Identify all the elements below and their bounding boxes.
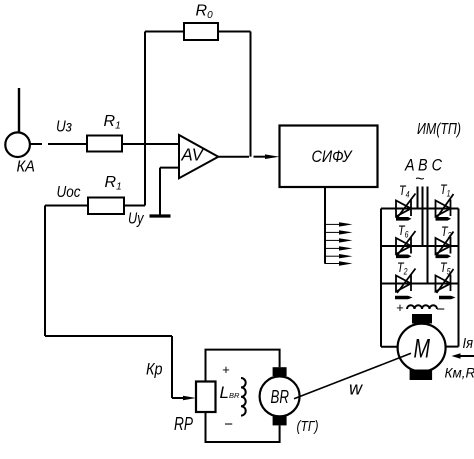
- wire feedback right vertical: [250, 32, 252, 157]
- svg-text:(ТГ): (ТГ): [297, 418, 319, 435]
- thyristor T5: [436, 269, 456, 299]
- pulse arrow 4: [325, 246, 353, 250]
- wire R1 to op-amp input: [122, 143, 179, 145]
- svg-text:T3: T3: [441, 223, 452, 241]
- arrow into SIFU: [265, 154, 280, 159]
- wire Uz from KA to R1: [30, 143, 42, 145]
- svg-text:Uос: Uос: [57, 184, 81, 201]
- svg-text:Iя: Iя: [463, 335, 474, 352]
- pulse arrow 2: [325, 230, 353, 234]
- pulse arrow 3: [325, 238, 353, 242]
- thyristor T6: [396, 231, 416, 258]
- bridge row 3 wire: [381, 283, 459, 285]
- svg-text:T4: T4: [399, 182, 410, 200]
- svg-text:T5: T5: [440, 259, 451, 277]
- ground: [150, 214, 171, 217]
- svg-text:T1: T1: [440, 181, 451, 199]
- svg-text:СИФУ: СИФУ: [312, 148, 353, 166]
- wire feedback horizontal: [45, 335, 172, 337]
- motor M brush top: [412, 314, 432, 324]
- inductor L_BR: [241, 378, 246, 416]
- tachogenerator BR brush bottom: [273, 416, 287, 425]
- svg-text:КА: КА: [17, 159, 36, 176]
- wire feedback down to RP: [171, 336, 173, 398]
- wire summing node vertical: [144, 32, 146, 206]
- smoothing reactor coil: [407, 305, 437, 309]
- op-amp AV: [179, 135, 218, 178]
- wire wiper with arrow Kp: [172, 397, 184, 399]
- svg-text:w: w: [349, 379, 363, 399]
- wire feedback from Uoc down: [44, 206, 46, 337]
- wire tacho loop top: [206, 350, 280, 382]
- phase line B: [422, 187, 424, 247]
- wire op-amp second input: [160, 167, 179, 169]
- wire Uoc to R1: [45, 205, 88, 207]
- resistor R1 (feedback input): [88, 198, 124, 215]
- svg-text:M: M: [414, 334, 431, 364]
- phase line A: [417, 187, 419, 209]
- svg-text:−: −: [436, 301, 445, 318]
- svg-text:~: ~: [415, 171, 424, 188]
- potentiometer RP: [196, 382, 216, 413]
- svg-text:R1: R1: [104, 113, 121, 132]
- bridge row 1 wire: [381, 208, 459, 210]
- sensor KA lead wire: [18, 88, 20, 133]
- thyristor T2: [395, 269, 416, 300]
- svg-text:+: +: [222, 362, 230, 377]
- sensor KA: [5, 132, 30, 157]
- bridge right bus: [458, 209, 460, 347]
- pulse arrow 5: [325, 254, 353, 258]
- wire R0 right: [218, 31, 251, 33]
- arrow Ia: [460, 355, 474, 357]
- svg-text:−: −: [224, 416, 233, 433]
- wire R1 to summing node: [124, 205, 145, 207]
- svg-text:R0: R0: [196, 3, 214, 22]
- svg-text:T6: T6: [398, 222, 409, 240]
- thyristor T4: [396, 194, 416, 221]
- svg-text:+: +: [396, 300, 404, 315]
- pulse arrow 1: [325, 222, 353, 226]
- resistor R0: [184, 23, 218, 40]
- svg-text:Кр: Кр: [146, 360, 163, 379]
- tachogenerator BR: [260, 376, 300, 416]
- thyristor T1: [436, 194, 454, 221]
- wire tacho loop bottom: [206, 412, 280, 442]
- bridge row 2 wire: [381, 245, 459, 247]
- svg-text:Км,Rя: Км,Rя: [445, 366, 474, 381]
- svg-text:ИМ(ТП): ИМ(ТП): [417, 121, 461, 138]
- svg-text:Uз: Uз: [56, 119, 72, 136]
- block SIFU: [280, 126, 378, 188]
- svg-text:R1: R1: [105, 174, 122, 193]
- wire motor left: [381, 346, 398, 348]
- wire motor right: [446, 346, 459, 348]
- motor M: [398, 324, 446, 372]
- svg-text:Uу: Uу: [128, 211, 144, 228]
- phase line C: [427, 187, 429, 284]
- wire SIFU pulse bus: [324, 187, 326, 264]
- svg-text:AV: AV: [181, 145, 206, 165]
- svg-text:LBR: LBR: [220, 383, 240, 402]
- svg-text:RP: RP: [174, 414, 193, 434]
- svg-text:BR: BR: [271, 387, 290, 407]
- wire R0 left: [145, 31, 184, 33]
- pulse arrow 6: [325, 261, 353, 265]
- resistor R1 (input): [87, 136, 122, 152]
- shaft w: [294, 353, 411, 399]
- wire op-amp output: [218, 156, 249, 158]
- tachogenerator BR brush top: [273, 367, 287, 376]
- thyristor T3: [436, 232, 454, 259]
- motor M brush bottom: [410, 370, 433, 381]
- svg-text:T2: T2: [397, 259, 408, 277]
- bridge left bus: [380, 209, 382, 347]
